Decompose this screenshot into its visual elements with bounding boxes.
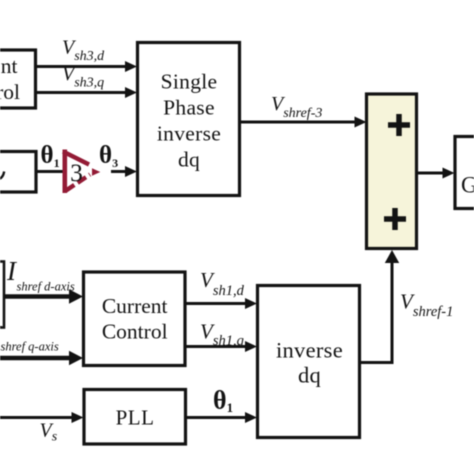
- svg-text:Vsh1,q: Vsh1,q: [200, 320, 244, 350]
- svg-text:Vshref-1: Vshref-1: [400, 290, 453, 321]
- svg-text:Vshref-3: Vshref-3: [271, 93, 322, 121]
- svg-text:Ishref d-axis: Ishref d-axis: [6, 256, 75, 294]
- svg-text:G: G: [461, 173, 474, 198]
- svg-text:dq: dq: [298, 363, 321, 388]
- svg-text:Phase: Phase: [163, 96, 215, 120]
- svg-text:PLL: PLL: [116, 406, 155, 430]
- svg-text:nt: nt: [1, 54, 18, 78]
- svg-text:Single: Single: [161, 70, 218, 94]
- svg-text:Control: Control: [102, 320, 168, 344]
- svg-text:rol: rol: [0, 80, 20, 104]
- svg-text:Current: Current: [102, 294, 168, 318]
- svg-text:θ1: θ1: [41, 142, 60, 170]
- svg-text:Vsh3,d: Vsh3,d: [62, 37, 105, 65]
- svg-text:dq: dq: [178, 148, 200, 172]
- svg-text:θ1: θ1: [213, 386, 233, 416]
- svg-text:Vsh1,d: Vsh1,d: [200, 268, 245, 299]
- svg-text:Ishref q-axis: Ishref q-axis: [0, 320, 59, 354]
- svg-text:Vs: Vs: [40, 420, 58, 445]
- svg-text:θ3: θ3: [99, 142, 118, 170]
- svg-text:3: 3: [70, 158, 83, 187]
- svg-text:inverse: inverse: [276, 338, 343, 363]
- svg-text:inverse: inverse: [157, 122, 221, 146]
